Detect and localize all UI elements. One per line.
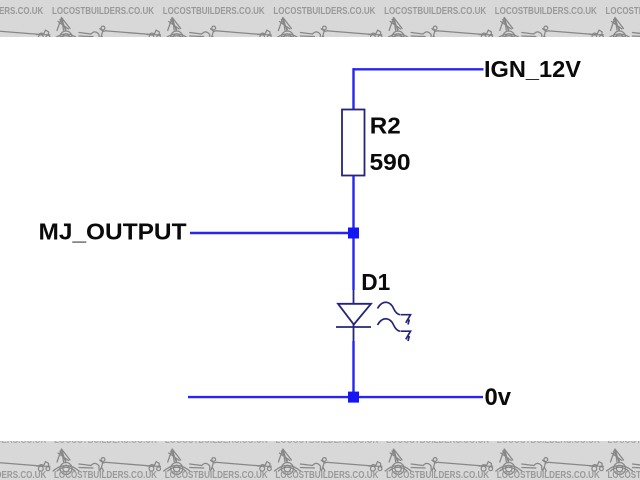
wire MJ_OUTPUT horizontal — [190, 232, 354, 234]
cut-off letter bottoms at banner top edge — [0, 434, 640, 446]
svg-text:MJ_OUTPUT: MJ_OUTPUT — [39, 219, 187, 245]
svg-text:590: 590 — [370, 149, 411, 175]
diode D1 (LED) — [336, 290, 371, 341]
wire top horizontal to IGN_12V — [354, 68, 484, 70]
resistor R2 — [342, 110, 365, 176]
node junction MJ_OUTPUT — [348, 228, 359, 239]
svg-text:0v: 0v — [485, 384, 512, 411]
top watermark banner — [0, 0, 640, 37]
wire junction down to diode — [352, 238, 354, 290]
wire diode to bottom junction — [352, 341, 354, 397]
svg-text:IGN_12V: IGN_12V — [484, 56, 582, 82]
svg-text:D1: D1 — [361, 269, 390, 295]
wire vertical from top corner to resistor — [352, 68, 354, 109]
node junction 0v — [348, 392, 359, 403]
bottom watermark banner — [0, 441, 640, 480]
wire resistor bottom to junction — [352, 176, 354, 233]
svg-text:R2: R2 — [370, 113, 401, 139]
wire bottom horizontal 0v rail — [188, 396, 483, 398]
LED arrows — [378, 302, 411, 341]
